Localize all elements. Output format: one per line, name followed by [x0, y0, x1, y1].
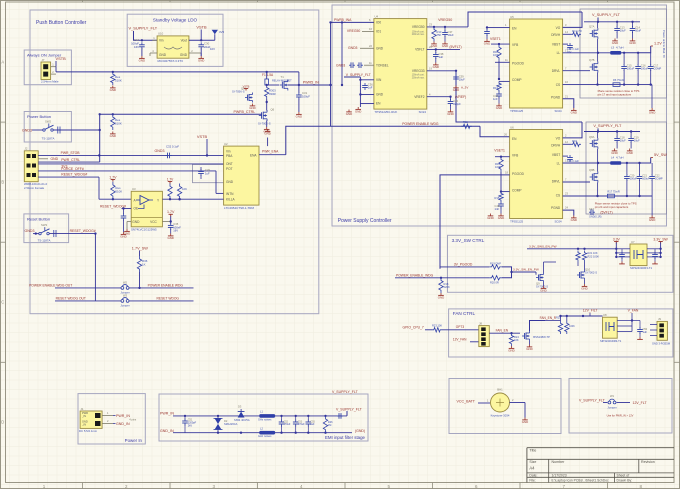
connector J2 control header: [24, 147, 48, 190]
svg-text:GND3: GND3: [155, 149, 165, 153]
svg-text:Date:: Date:: [529, 473, 537, 477]
svg-text:V_FAN: V_FAN: [628, 309, 639, 313]
net label V_SUPPLY_FLT buck1: [592, 13, 621, 17]
net label 3.3V_SW_EN: [513, 268, 539, 272]
svg-text:COMP: COMP: [512, 78, 522, 82]
svg-text:1uF: 1uF: [205, 171, 210, 175]
wire q11 source: [526, 341, 532, 351]
wire R36 down: [138, 272, 140, 289]
wire VO buck1: [563, 12, 582, 27]
svg-text:VSTB: VSTB: [197, 134, 208, 139]
wire VREG33 to buck2 VO rail: [456, 71, 582, 122]
svg-text:1nF: 1nF: [493, 97, 498, 101]
svg-text:LL: LL: [557, 51, 561, 55]
svg-text:SO24: SO24: [419, 110, 427, 114]
note box center RC: [193, 164, 231, 182]
svg-text:Reset Button: Reset Button: [27, 217, 50, 222]
wire q10 drain: [578, 262, 585, 270]
svg-text:3V3: 3V3: [219, 30, 225, 34]
svg-text:U4: U4: [375, 14, 379, 18]
svg-text:16V: 16V: [173, 229, 178, 233]
transistor Q7A buck1 high: [589, 25, 598, 40]
svg-text:DC 5.5/2.1mm: DC 5.5/2.1mm: [79, 429, 98, 433]
ground U2 top: [264, 129, 270, 146]
svg-text:GND: GND: [51, 157, 59, 161]
svg-text:(VREF): (VREF): [455, 95, 466, 99]
rc comp network buck1: [493, 81, 502, 103]
svg-text:510K: 510K: [115, 121, 122, 125]
svg-text:V_SUPPLY_FLT: V_SUPPLY_FLT: [593, 124, 622, 128]
wire reset vertical: [94, 234, 96, 301]
svg-text:SIP32431DR3-T1: SIP32431DR3-T1: [600, 339, 622, 343]
svg-text:10uF: 10uF: [620, 29, 626, 33]
svg-text:220pF: 220pF: [453, 102, 461, 106]
vertical note text buck1: [662, 30, 666, 58]
svg-text:GPIO_CPU_7: GPIO_CPU_7: [403, 325, 424, 329]
svg-text:Q7B: Q7B: [589, 58, 595, 62]
net label GND emi right: [355, 429, 365, 433]
wire emi top rail: [173, 415, 347, 417]
svg-text:VREG33: VREG33: [412, 69, 425, 73]
net label FAN_EN_R: [540, 316, 557, 320]
svg-text:D3: D3: [238, 405, 242, 409]
wire q7a source: [597, 39, 599, 53]
wire u7 right pins: [647, 248, 662, 259]
svg-text:100uF: 100uF: [302, 94, 310, 98]
net label PWR_IN J1: [116, 414, 130, 418]
transistor Q5 SI7056 pfet: [232, 84, 256, 110]
wire to EN buck2: [480, 126, 510, 137]
svg-text:DRVH: DRVH: [551, 143, 561, 147]
svg-text:GND: GND: [487, 216, 493, 220]
svg-text:POWER ENABLE WDG OUT: POWER ENABLE WDG OUT: [29, 283, 72, 287]
section box Standby Voltage LDO: [127, 14, 223, 66]
svg-text:pin 17 and input capacitors: pin 17 and input capacitors: [598, 92, 632, 96]
wire power button vertical: [99, 113, 101, 162]
net label GND3 power button: [22, 129, 43, 133]
wire row PWR_STOB: [38, 154, 223, 156]
inductor L4 buck2: [610, 156, 623, 165]
net label RESET_WDOG# OE: [100, 205, 131, 209]
svg-text:C46 0.1uF: C46 0.1uF: [567, 159, 580, 163]
wire buck1 input rail: [584, 18, 640, 23]
capacitor C48 u7 left: [619, 249, 625, 264]
ic U4 supply controller: [374, 14, 427, 114]
net label V_SUPPLY_FLT emi2: [332, 390, 359, 394]
ground buck1 right: [649, 108, 655, 115]
resistor R14 fb2: [495, 157, 503, 172]
svg-text:V_SUPPLY_FLT: V_SUPPLY_FLT: [332, 390, 359, 394]
svg-text:GND: GND: [376, 47, 384, 51]
wire VCC pin: [162, 216, 172, 223]
svg-text:ENA: ENA: [250, 153, 257, 157]
svg-text:VBST: VBST: [552, 43, 560, 47]
ground C39: [453, 86, 469, 93]
svg-text:PWR5_CTRL: PWR5_CTRL: [234, 110, 256, 114]
pin 1 J1: [102, 411, 115, 416]
resistor R24 10k pd: [509, 333, 519, 346]
wire battery right: [510, 398, 526, 418]
pin ENA U2: [259, 150, 286, 155]
svg-text:PWR_ENA: PWR_ENA: [262, 150, 279, 154]
svg-text:PGOOD: PGOOD: [512, 172, 525, 176]
resistor R19 dnp: [489, 262, 502, 270]
section box Push Button Controller: [30, 10, 319, 314]
wire F1 to T1: [266, 84, 280, 86]
svg-text:GND: GND: [496, 106, 502, 110]
svg-text:4.7R: 4.7R: [576, 29, 582, 33]
svg-text:Power In: Power In: [125, 438, 143, 443]
svg-text:100K: 100K: [495, 165, 501, 169]
svg-text:10K: 10K: [514, 338, 519, 342]
ferrite bead L2: [258, 426, 275, 438]
svg-text:GND: GND: [522, 420, 528, 424]
svg-text:Standby Voltage LDO: Standby Voltage LDO: [153, 18, 198, 23]
capacitor across power button: [58, 127, 60, 134]
svg-text:3.3V_SW_EN_PW: 3.3V_SW_EN_PW: [513, 268, 539, 272]
svg-text:SW3: SW3: [41, 223, 48, 227]
svg-text:Vin: Vin: [226, 150, 231, 154]
svg-text:SI-7056-S: SI-7056-S: [232, 90, 245, 94]
svg-text:12V_FAN: 12V_FAN: [453, 338, 467, 342]
ground buck2 pgnd: [571, 216, 577, 223]
svg-text:EN: EN: [376, 102, 381, 106]
svg-text:Jumper: Jumper: [607, 406, 616, 410]
svg-text:PWR_IN: PWR_IN: [116, 414, 130, 418]
net label GND3 reset: [25, 229, 39, 235]
svg-text:PWR_IN: PWR_IN: [160, 412, 174, 416]
capacitor C31 on PWR5_IN: [296, 85, 310, 112]
svg-text:Power Supply Controller: Power Supply Controller: [338, 218, 392, 224]
svg-text:1uF: 1uF: [310, 423, 315, 426]
rc comp network buck2: [495, 192, 504, 214]
svg-text:4.7uH: 4.7uH: [616, 46, 623, 50]
svg-text:VCC_BATT: VCC_BATT: [457, 399, 476, 403]
svg-text:3.3V_SW0_EN_PW: 3.3V_SW0_EN_PW: [529, 245, 557, 249]
connector J1 power in: [79, 407, 102, 433]
ground buck2 caps: [611, 149, 633, 156]
svg-text:GND: GND: [180, 53, 188, 57]
ground R24: [508, 346, 514, 353]
svg-text:U8: U8: [603, 313, 607, 317]
svg-text:1K: 1K: [142, 262, 146, 266]
svg-text:GND: GND: [540, 289, 546, 293]
wire VO buck2: [563, 122, 582, 138]
svg-text:GND: GND: [110, 88, 116, 92]
net label OPT3: [456, 325, 465, 329]
svg-text:1.2V: 1.2V: [654, 42, 662, 46]
wire POWER ENABLE WDG: [129, 287, 194, 289]
net label GND3 U4: [348, 44, 374, 50]
wire T1 out PWR5_IN: [288, 72, 332, 86]
svg-text:GND: GND: [581, 287, 587, 291]
wire q8b drain: [597, 163, 599, 172]
svg-text:GND3: GND3: [25, 229, 35, 233]
svg-text:PGND: PGND: [551, 96, 561, 100]
net label 12V_FAN left: [453, 338, 479, 342]
svg-text:File:: File:: [529, 478, 535, 482]
svg-text:VREG50: VREG50: [347, 29, 360, 33]
output caps buck1: [621, 53, 661, 85]
svg-text:OE: OE: [134, 207, 139, 211]
svg-text:2kV: 2kV: [188, 425, 193, 428]
svg-text:75K: 75K: [437, 33, 442, 37]
wire Y out: [162, 198, 223, 200]
svg-text:100uF: 100uF: [641, 67, 649, 71]
resistor R23 series fan: [432, 323, 442, 332]
wire vertical x342: [341, 22, 343, 86]
section box battery: [449, 379, 561, 434]
wire VREG50 out: [427, 23, 468, 29]
svg-text:12V_FILT: 12V_FILT: [583, 309, 598, 313]
diode D3 reverse: [234, 405, 250, 422]
svg-text:GND: GND: [611, 151, 617, 155]
svg-text:(5VFLT): (5VFLT): [449, 45, 461, 49]
transistor Q8B buck2 low: [589, 168, 598, 183]
ground R7: [110, 86, 116, 93]
resistor R11 series: [461, 120, 471, 129]
svg-text:510K: 510K: [115, 78, 122, 82]
svg-text:POWER ENABLE WDG: POWER ENABLE WDG: [148, 283, 184, 287]
svg-text:100uF: 100uF: [627, 67, 635, 71]
svg-text:RESET_WDOG#: RESET_WDOG#: [61, 173, 87, 177]
svg-text:SO24: SO24: [554, 220, 562, 224]
power port 3V3 arrow: [212, 30, 225, 41]
note text buck1: [598, 89, 640, 96]
svg-text:COMP: COMP: [512, 189, 522, 193]
svg-text:10uF: 10uF: [635, 29, 641, 33]
svg-text:GND3: GND3: [22, 129, 32, 133]
svg-text:R23 10K: R23 10K: [432, 323, 442, 327]
svg-text:TS-1187A: TS-1187A: [38, 239, 51, 243]
svg-text:Size: Size: [529, 460, 536, 464]
wire emi out: [337, 411, 347, 419]
svg-text:GND_IN: GND_IN: [160, 429, 174, 433]
svg-text:330R: 330R: [269, 92, 276, 96]
ic U7 load switch: [630, 240, 653, 270]
svg-text:EMI input filter stage: EMI input filter stage: [325, 435, 366, 440]
capacitor C46 vbst2: [563, 155, 580, 163]
svg-text:EN: EN: [512, 27, 517, 31]
svg-text:LTC2954CTS8-1-TRM: LTC2954CTS8-1-TRM: [224, 206, 254, 210]
net label 5VFLT: [449, 45, 461, 49]
wire q8a source: [597, 149, 599, 163]
wire PGOOD buck2: [440, 171, 510, 269]
svg-text:4 pins: 4 pins: [129, 418, 137, 422]
svg-text:GHz noises: GHz noises: [258, 417, 272, 421]
svg-text:PBA: PBA: [226, 154, 233, 158]
ground C34: [120, 232, 126, 239]
wire EN buck1: [486, 23, 510, 29]
capacitor C40 vref: [448, 97, 461, 110]
note box buck2 output: [586, 122, 667, 214]
svg-text:5V_SW: 5V_SW: [654, 153, 667, 157]
resistor R9 510K: [111, 182, 123, 200]
note jumper use: [607, 414, 634, 418]
svg-text:GND: GND: [649, 111, 655, 115]
capacitor C30 LDO out: [198, 41, 215, 56]
wire VREG50 to buck1 rail: [468, 12, 582, 27]
capacitor C51 input: [182, 416, 196, 433]
wire VREF2 out: [427, 92, 452, 98]
svg-text:PGOOD: PGOOD: [512, 61, 525, 65]
svg-text:2.54mm Female: 2.54mm Female: [24, 186, 45, 190]
svg-text:GND: GND: [571, 218, 577, 222]
wire emi bottom rail: [173, 432, 352, 434]
svg-text:GND: GND: [447, 112, 453, 116]
net label RESET WDOG: [157, 296, 180, 300]
ground U4 bottom: [346, 110, 352, 117]
svg-text:FORCE_OFF#: FORCE_OFF#: [61, 167, 84, 171]
net label RESET WDOG OUT: [56, 296, 86, 300]
svg-text:MC33275ST-3.3T3: MC33275ST-3.3T3: [158, 59, 184, 63]
switch SW2 power button: [42, 120, 55, 141]
svg-text:3.3V: 3.3V: [613, 237, 621, 241]
net label V_SUPPLY_FLT U4: [346, 73, 371, 77]
svg-text:GHz noises: GHz noises: [258, 434, 272, 438]
power flag 1.7V VCC: [167, 210, 175, 216]
net label VREG50 right: [438, 18, 452, 22]
svg-text:Drawn By:: Drawn By:: [617, 478, 633, 482]
section box Always ON Jumper: [24, 50, 71, 85]
wire q8a drain: [597, 132, 599, 139]
wire PGND buck1: [563, 94, 574, 108]
svg-text:2.54mm Male: 2.54mm Male: [41, 80, 59, 84]
ground LDO in cap: [139, 56, 145, 63]
net label PWR5_INA: [334, 18, 371, 22]
net label VREG50 left: [347, 27, 374, 33]
svg-text:VIN: VIN: [376, 78, 382, 82]
svg-text:VREG50: VREG50: [438, 18, 452, 22]
svg-text:V_SUPPLY_FLT: V_SUPPLY_FLT: [336, 407, 363, 411]
svg-text:R17 75mR: R17 75mR: [607, 190, 620, 194]
net label GND_IN J1: [116, 422, 130, 426]
wire COMP buck1: [499, 80, 510, 82]
svg-text:V_SUPPLY_FLT: V_SUPPLY_FLT: [129, 26, 158, 31]
svg-text:LL: LL: [557, 162, 561, 166]
svg-text:U7: U7: [631, 240, 635, 244]
net label GND3 tonsel: [336, 61, 374, 68]
net label PWR5_IN: [303, 81, 319, 85]
wire LDO output: [189, 39, 215, 41]
svg-text:VFB: VFB: [512, 154, 518, 158]
svg-text:VREF2: VREF2: [414, 95, 425, 99]
switch SW3 reset button: [38, 223, 51, 242]
net label VSET1 buck1: [490, 37, 510, 45]
svg-text:16V: 16V: [134, 45, 139, 49]
wire 3v3 rails: [527, 248, 618, 250]
svg-text:F1 1.5A: F1 1.5A: [262, 73, 274, 77]
net label 5V_SW out: [651, 153, 668, 158]
wire LDO input: [134, 31, 158, 42]
transistor Q10 nfet: [577, 268, 597, 281]
svg-text:PWR5_IN: PWR5_IN: [303, 81, 319, 85]
tvs diode D2: [214, 416, 238, 433]
ground C40: [447, 110, 453, 117]
wire CS buck2: [563, 192, 653, 198]
svg-text:KILLA: KILLA: [226, 197, 236, 201]
svg-text:BSS138W-TP: BSS138W-TP: [533, 335, 550, 339]
svg-text:1.7V_SW: 1.7V_SW: [132, 246, 148, 250]
svg-text:OPT3: OPT3: [456, 325, 465, 329]
capacitor C53: [293, 416, 305, 433]
transistor Q6 SI7002 nfet: [258, 108, 275, 126]
svg-text:1uF: 1uF: [439, 55, 444, 59]
pin 4 LDO gnd: [150, 49, 157, 56]
svg-text:100K: 100K: [493, 53, 499, 57]
svg-text:100mA cont.: 100mA cont.: [412, 30, 425, 33]
wire ENA up to power-enable: [286, 126, 480, 154]
svg-text:GND: GND: [198, 59, 204, 63]
svg-text:200mA max.: 200mA max.: [412, 33, 425, 36]
net label V_SUPPLY_FLT jumper: [579, 398, 607, 402]
svg-text:R19 DNP: R19 DNP: [490, 262, 501, 266]
net label GPIO_CPU: [403, 325, 433, 330]
resistor R26 bleed: [323, 416, 333, 433]
wire POWER_ENABLE_WDG bottom: [395, 277, 489, 279]
ground C50: [637, 337, 643, 339]
svg-text:V_SUPPLY_FLT: V_SUPPLY_FLT: [579, 398, 606, 402]
svg-text:470uF: 470uF: [284, 423, 291, 426]
note 4A max: [129, 418, 137, 422]
svg-text:L4: L4: [611, 156, 615, 160]
svg-text:J9: J9: [658, 317, 661, 321]
wire q7b source: [597, 73, 599, 85]
wire PGND buck2: [563, 206, 574, 216]
svg-text:J1: J1: [81, 407, 84, 411]
svg-text:DRVH: DRVH: [551, 33, 561, 37]
ferrite bead L1: [258, 410, 275, 422]
svg-text:DRVL: DRVL: [552, 180, 561, 184]
svg-text:GND: GND: [355, 110, 361, 114]
net label V_SUPPLY_FLT emi: [336, 407, 363, 411]
svg-text:GND 3-P/2E5M: GND 3-P/2E5M: [652, 341, 670, 345]
svg-text:10uF: 10uF: [448, 33, 454, 37]
net label VCC_BATT: [457, 399, 491, 404]
svg-text:Push Button Controller: Push Button Controller: [36, 20, 87, 26]
resistor R16 gate2: [571, 139, 581, 147]
section box Power In: [78, 394, 145, 444]
svg-text:SS54 40V/5A: SS54 40V/5A: [234, 418, 250, 422]
section box Reset Button: [24, 214, 69, 243]
net label 1.7V_SW: [132, 246, 148, 256]
ground R18: [438, 293, 444, 300]
svg-text:R15: R15: [495, 196, 500, 200]
svg-text:Q8A: Q8A: [589, 135, 595, 139]
svg-text:GND: GND: [346, 112, 352, 116]
wire V5FLT out: [427, 45, 460, 51]
svg-text:1M: 1M: [328, 424, 331, 427]
power flag 1.7V pullup: [109, 175, 117, 181]
output caps buck2: [624, 163, 663, 196]
svg-text:A_3V: A_3V: [461, 86, 468, 90]
svg-text:A4: A4: [529, 466, 535, 471]
section box EMI input filter stage: [159, 394, 368, 441]
svg-text:DRVL: DRVL: [552, 69, 561, 73]
title block: [527, 448, 674, 483]
svg-text:B: B: [1, 180, 4, 185]
pin 2 jumper: [51, 70, 56, 74]
transistor Q9 nfet: [536, 273, 548, 289]
wire u7 left pins: [615, 249, 630, 258]
net label V_SUPPLY_FLT (LDO in): [129, 26, 158, 31]
wire buck1 out: [621, 46, 650, 54]
svg-text:BH1: BH1: [497, 388, 503, 392]
svg-text:W1: W1: [610, 394, 615, 398]
capacitor C37 10uF: [442, 27, 454, 42]
svg-text:1.7V: 1.7V: [167, 210, 175, 214]
net label PWR_STOB: [61, 151, 81, 155]
